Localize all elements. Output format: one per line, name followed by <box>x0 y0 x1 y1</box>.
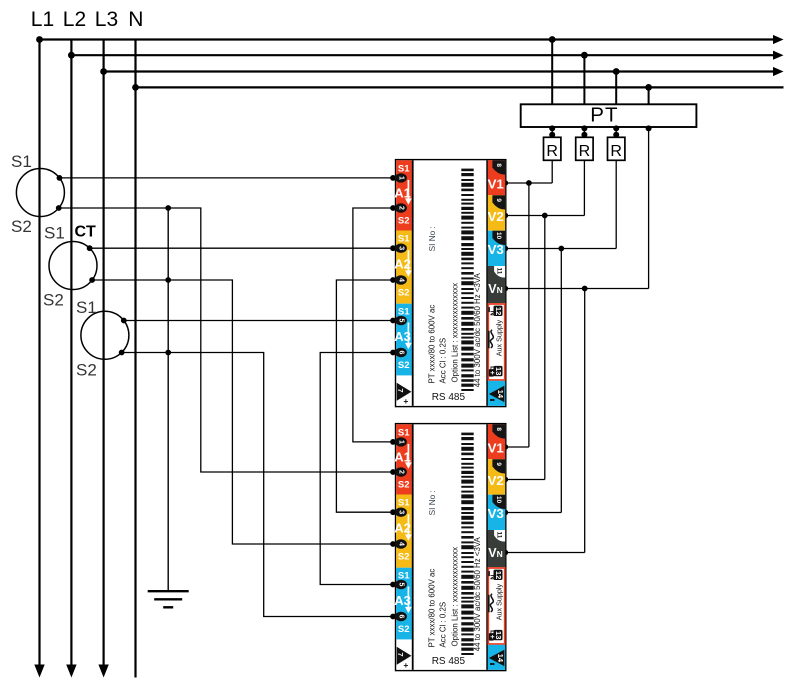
node junction VN drop <box>582 286 588 292</box>
wire upper V1 horizontal <box>506 182 552 184</box>
svg-text:L2: L2 <box>63 8 86 31</box>
node upper terminal V3 <box>502 246 508 252</box>
wire lower V3 horizontal <box>506 512 562 514</box>
svg-text:N: N <box>128 8 143 31</box>
node junction V1 drop <box>526 180 532 186</box>
wire PT neutral down to VN line <box>648 127 650 289</box>
wire CT3 S2 to lower terminal 6 <box>121 353 392 617</box>
node lower terminal 3 <box>390 509 396 515</box>
node lower terminal 6 <box>390 614 396 620</box>
svg-text:S1: S1 <box>44 224 65 243</box>
svg-text:S2: S2 <box>11 217 32 236</box>
wire bus L1 horizontal <box>40 38 776 40</box>
CT1 current transformer circle <box>16 169 64 217</box>
node junction V3 drop <box>558 246 564 252</box>
node above R1 <box>549 132 555 138</box>
node lower terminal 4 <box>390 541 396 547</box>
wire drop to lower V1 <box>528 183 530 447</box>
resistor R3 <box>608 137 625 160</box>
node lower terminal 2 <box>390 469 396 475</box>
wire drop to lower V2 <box>544 216 546 480</box>
node upper terminal V1 <box>502 180 508 186</box>
node above R2 <box>581 132 587 138</box>
wire CT2 S1 to terminal 3 <box>90 247 393 249</box>
node tap N <box>645 84 652 91</box>
node CT2 S1 <box>87 245 93 251</box>
node upper terminal V2 <box>502 213 508 219</box>
wire lower V1 horizontal <box>506 446 529 448</box>
wire PT to R1 <box>551 127 553 137</box>
node under PT 3 <box>613 125 619 131</box>
node under PT 1 <box>549 125 555 131</box>
node under PT 2 <box>581 125 587 131</box>
node CT1 S1 <box>57 175 63 181</box>
wire bus L2 horizontal <box>71 54 775 56</box>
wire PT tap from L1 <box>551 40 553 105</box>
wire upper V2 horizontal <box>506 215 585 217</box>
wire lower V2 horizontal <box>506 479 545 481</box>
meter M1 (upper energy meter) <box>394 160 506 407</box>
node upper terminal 5 <box>390 318 396 324</box>
node ground junction S2-1 <box>165 205 171 211</box>
wire lower VN horizontal <box>506 552 585 554</box>
wire PT tap from L3 <box>615 72 617 105</box>
node tap L2 <box>581 52 588 59</box>
wire CT2 S2 to lower terminal 4 <box>90 280 393 544</box>
wire R1 to V1 line <box>551 160 553 183</box>
wire feeder L3 vertical <box>102 40 104 665</box>
wire feeder L2 vertical <box>70 40 72 665</box>
wire drop to lower V3 <box>560 249 562 513</box>
svg-text:S1: S1 <box>11 152 32 171</box>
ground bar 2 <box>154 598 182 600</box>
node CT3 S2 <box>119 350 125 356</box>
svg-text:CT: CT <box>75 224 97 241</box>
node junction V2 drop <box>542 213 548 219</box>
wire CT1 S2 to lower terminal 2 <box>57 208 393 472</box>
node upper terminal 6 <box>390 350 396 356</box>
wire upper terminal 4 to lower terminal 3 <box>336 280 392 512</box>
node CT3 S1 <box>121 318 127 324</box>
node ground junction S2-3 <box>165 350 171 356</box>
node upper terminal VN <box>502 286 508 292</box>
CT2 current transformer circle <box>49 242 97 290</box>
transformer PT <box>521 104 697 127</box>
node lower terminal 5 <box>390 582 396 588</box>
node tap L1 <box>549 36 556 43</box>
node upper terminal 1 <box>390 175 396 181</box>
wire upper terminal 2 to lower terminal 1 <box>353 208 393 442</box>
node lower terminal V3 <box>502 510 508 516</box>
node lower terminal VN <box>502 550 508 556</box>
meter M2 (lower energy meter) <box>394 424 506 671</box>
resistor R2 <box>576 137 593 160</box>
wire bus L3 horizontal <box>104 70 776 72</box>
wire ground vertical <box>167 208 169 591</box>
resistor R1 <box>544 137 561 160</box>
wire feeder L1 vertical <box>38 40 40 665</box>
wire feeder N vertical <box>134 40 136 678</box>
wire CT1 S1 to terminal 1 <box>59 177 393 179</box>
node ground junction S2-2 <box>165 277 171 283</box>
node tap L3 <box>613 68 620 75</box>
node above R3 <box>613 132 619 138</box>
node upper terminal 3 <box>390 245 396 251</box>
node lower terminal V1 <box>502 444 508 450</box>
CT3 current transformer circle <box>81 311 129 359</box>
ground bar 3 <box>163 606 173 608</box>
svg-text:R: R <box>579 143 591 160</box>
wire PT tap from N <box>648 87 650 104</box>
svg-text:L1: L1 <box>31 8 54 31</box>
node L3 junction <box>100 68 107 75</box>
wire CT3 S1 to terminal 5 <box>121 320 392 322</box>
svg-text:S2: S2 <box>43 291 64 310</box>
wire upper terminal 6 to lower terminal 5 <box>320 353 392 585</box>
node N junction <box>132 84 139 91</box>
wire PT to R3 <box>615 127 617 137</box>
node L2 junction <box>68 52 75 59</box>
wire PT to R2 <box>583 127 585 137</box>
svg-text:S1: S1 <box>76 298 97 317</box>
svg-text:S2: S2 <box>76 361 97 380</box>
node under PT neutral <box>646 125 652 131</box>
node lower terminal 1 <box>390 439 396 445</box>
ground bar 1 <box>148 590 189 592</box>
node L1 corner <box>36 36 43 43</box>
svg-text:PT: PT <box>590 104 619 127</box>
wire PT tap from L2 <box>583 55 585 104</box>
node CT1 S2 <box>56 205 62 211</box>
wire upper VN horizontal <box>506 288 649 290</box>
node lower terminal V2 <box>502 477 508 483</box>
svg-text:R: R <box>610 143 622 160</box>
node CT2 S2 <box>89 277 95 283</box>
wire upper V3 horizontal <box>506 248 616 250</box>
svg-text:R: R <box>546 143 558 160</box>
wire bus N horizontal <box>136 86 784 88</box>
svg-text:L3: L3 <box>95 8 118 31</box>
wire R3 to V3 line <box>615 160 617 248</box>
wire R2 to V2 line <box>583 160 585 215</box>
wire drop to lower VN <box>584 289 586 553</box>
node upper terminal 4 <box>390 277 396 283</box>
node upper terminal 2 <box>390 205 396 211</box>
